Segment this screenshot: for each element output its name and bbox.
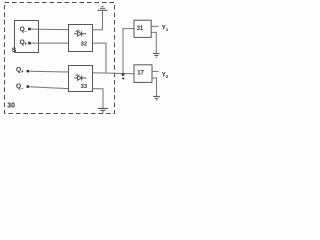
wire 17 to Y2	[152, 70, 159, 72]
diode D32 cathode bar	[81, 31, 83, 36]
svg-text:2: 2	[166, 74, 169, 79]
svg-text:S: S	[12, 47, 17, 54]
wire opto33 top output to junction (net V)	[93, 73, 135, 74]
terminal Q+ label	[20, 39, 28, 46]
svg-text:33: 33	[81, 84, 88, 90]
wire Q'+ to opto 33 top input	[29, 70, 69, 73]
terminal Q'+ label (floating pair, upper)	[16, 67, 24, 74]
wire 17 to ground g2	[152, 78, 157, 96]
wire junction up to box 31 input	[123, 29, 134, 75]
svg-text:~: ~	[24, 29, 27, 34]
svg-text:17: 17	[137, 71, 144, 77]
diode D33 triangle	[78, 76, 82, 81]
wire Q+ to opto 32 bottom input	[31, 42, 69, 44]
ground g2	[153, 96, 160, 100]
diode D32 light arrows	[76, 30, 78, 32]
diode D33 left lead	[74, 77, 78, 79]
diode D32 triangle	[78, 32, 82, 37]
svg-text:1: 1	[166, 27, 169, 32]
diode D33 cathode bar	[81, 76, 83, 81]
terminal Q~ label	[20, 26, 28, 34]
wire Q- to opto 33 bottom input	[29, 87, 69, 89]
wire Q~ to opto 32 top input	[31, 28, 69, 31]
terminal square Q+	[28, 42, 31, 45]
arrow V below junction	[122, 78, 125, 80]
svg-text:32: 32	[81, 41, 87, 47]
wire opto33 bottom output to bottom ground	[93, 89, 104, 108]
svg-text:30: 30	[7, 103, 15, 110]
terminal Q- label (floating pair, lower)	[16, 83, 24, 90]
diode D32 left lead	[74, 33, 78, 35]
diode D33 right lead	[82, 77, 86, 79]
box 17	[134, 65, 152, 83]
wire 31 to ground g1	[151, 32, 156, 53]
svg-text:31: 31	[137, 26, 144, 32]
terminal square Q'+	[27, 70, 30, 73]
dashed enclosure 30	[5, 3, 115, 114]
junction dot	[122, 73, 125, 76]
svg-text:+: +	[21, 69, 24, 74]
box S (signal source)	[15, 21, 39, 53]
ground g1	[153, 54, 160, 58]
terminal square Q-	[27, 85, 30, 88]
optocoupler U33 box	[69, 66, 93, 92]
top ground (inverted earth)	[98, 6, 108, 10]
optocoupler U32 box	[69, 25, 93, 52]
wire 31 to Y1	[151, 25, 158, 27]
label Y2	[162, 73, 169, 79]
wire opto32 top output to top ground	[93, 10, 103, 30]
diode D32 right lead	[82, 33, 86, 35]
svg-text:–: –	[21, 85, 24, 90]
box 31	[134, 20, 151, 37]
svg-text:+: +	[24, 42, 27, 47]
wire opto32 bottom output bus down	[93, 43, 107, 73]
terminal square Q~	[28, 28, 31, 31]
diode D33 light arrows	[76, 74, 78, 76]
label Y1	[162, 26, 169, 32]
bottom ground g3	[98, 108, 108, 112]
